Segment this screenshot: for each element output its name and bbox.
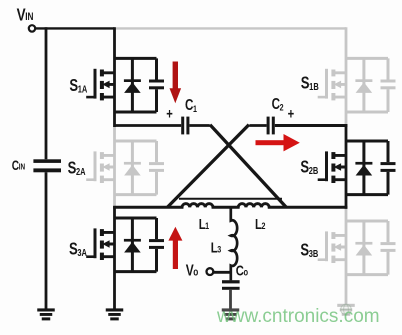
wire: gray S1B trunk (drain to C2 node) — [345, 27, 348, 126]
svg-text:L1: L1 — [199, 215, 210, 232]
wire: C2 right plate to S2B drain node — [275, 124, 348, 127]
parallel capacitor of S2B — [381, 141, 396, 195]
wire: left input rail upper (VIN node down to CIN) — [45, 27, 48, 159]
svg-text:VIN: VIN — [17, 6, 34, 25]
svg-text:C1: C1 — [185, 97, 197, 115]
svg-text:Vo: Vo — [186, 261, 199, 279]
switch cell S3A frame — [115, 218, 157, 272]
wire: C1 right plate to crossover — [189, 124, 209, 127]
svg-text:www.cntronics.com: www.cntronics.com — [216, 306, 380, 327]
switch cell S2A frame (gray) — [115, 141, 157, 195]
svg-text:S3A: S3A — [69, 240, 87, 259]
watermark globe icon — [341, 304, 352, 315]
svg-text:S2A: S2A — [68, 159, 86, 178]
body diode of S3A — [124, 218, 141, 272]
parallel capacitor of S1A — [149, 58, 164, 112]
wire: C1 node to C1 left plate — [115, 124, 182, 127]
wire: crossover diagonal from C2 to left end of L1 — [168, 125, 249, 207]
wire: S2B trunk (C2 node through cell to SW-B node) — [345, 124, 348, 209]
capacitor C2 plates — [267, 117, 270, 135]
wire: Co to ground — [229, 290, 232, 309]
wire: Vo stub from L3/Co junction — [214, 271, 231, 274]
MOSFET S3A — [86, 228, 114, 260]
node Vo: output terminal circle — [207, 268, 214, 275]
body diode of S3B (gray) — [355, 221, 372, 275]
switch cell S1A frame — [115, 58, 157, 112]
svg-text:S1B: S1B — [301, 74, 319, 93]
node VIN: input terminal circle — [29, 25, 35, 31]
wire: crossover diagonal from C1 to right end of L2 — [210, 125, 286, 207]
wire: S3A trunk (SW-A node through cell to ground) — [113, 206, 116, 309]
wire: left input rail lower (CIN to ground) — [45, 172, 48, 308]
switch cell S3B frame (gray) — [346, 221, 388, 275]
svg-text:C2: C2 — [272, 95, 284, 113]
MOSFET S2B — [318, 151, 346, 183]
body diode of S1B (gray) — [355, 58, 372, 112]
inductor L1 and L2 winding line from SW-A node to SW-B node — [113, 204, 347, 208]
MOSFET S1A — [86, 69, 114, 101]
MOSFET S3B (gray) — [318, 231, 346, 263]
MOSFET S1B (gray) — [318, 69, 346, 101]
svg-text:L3: L3 — [211, 239, 222, 256]
wire: gray S3B trunk (SW-B node down to gray ground) — [345, 207, 348, 305]
capacitor CIN plates — [33, 159, 61, 163]
wire: gray top bus from node above S1A to S1B drain — [113, 27, 346, 29]
ground: input rail ground — [37, 308, 55, 320]
parallel capacitor of S1B (gray) — [381, 58, 396, 112]
parallel capacitor of S3A — [149, 218, 164, 272]
svg-text:Co: Co — [236, 262, 249, 279]
svg-text:+: + — [288, 105, 295, 122]
wire: gray S2A trunk (C1 node down to SW-A node) — [113, 126, 116, 208]
svg-text:+: + — [166, 105, 173, 122]
switch cell S2B frame — [346, 141, 388, 195]
body diode of S2B — [355, 141, 372, 195]
wire: C2 left plate to crossover — [249, 124, 266, 127]
red arrow: output current (up) — [168, 227, 182, 269]
capacitor C1 plates — [181, 117, 184, 135]
ground: gray ground of S3B leg — [337, 304, 355, 316]
MOSFET S2A (gray) — [86, 151, 114, 183]
inductor L3 center-tap winding — [231, 206, 237, 280]
parallel capacitor of S3B (gray) — [381, 221, 396, 275]
wire: VIN terminal to S1A drain corner — [36, 27, 115, 29]
svg-text:CIN: CIN — [12, 157, 25, 173]
red arrow: C1 charge current (down) — [170, 62, 182, 104]
svg-text:S1A: S1A — [69, 76, 87, 95]
wire: S1A trunk (top bus through cell down to C1 node) — [113, 27, 116, 127]
capacitor Co plates — [222, 280, 240, 283]
body diode of S2A (gray) — [124, 141, 141, 195]
parallel capacitor of S2A (gray) — [149, 141, 164, 195]
ground: S3A source ground — [106, 308, 124, 320]
svg-text:S3B: S3B — [300, 241, 318, 260]
ground: output capacitor ground — [222, 308, 240, 320]
coupled core bar above L1/L2 — [179, 198, 282, 200]
svg-text:L2: L2 — [255, 215, 266, 232]
red arrow: C2 discharge current (right) — [256, 134, 300, 151]
switch cell S1B frame (gray) — [346, 58, 388, 112]
svg-text:S2B: S2B — [300, 158, 318, 177]
body diode of S1A — [124, 58, 141, 112]
